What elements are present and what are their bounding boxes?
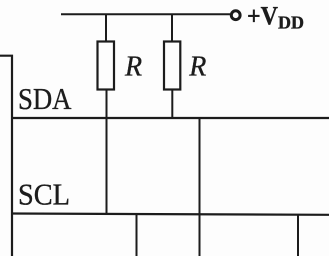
svg-text:R: R xyxy=(124,51,142,82)
wire: resistor R2 bottom to SDA xyxy=(171,90,173,119)
resistor R2 (pull-up to SDA) xyxy=(164,42,180,90)
svg-text:DD: DD xyxy=(278,13,304,33)
svg-text:SDA: SDA xyxy=(18,81,72,116)
wire: SDA bus line xyxy=(11,117,329,119)
wire: rail to resistor R2 top xyxy=(171,14,173,42)
svg-text:R: R xyxy=(188,51,206,82)
svg-text:SCL: SCL xyxy=(18,177,70,212)
label: +VDD xyxy=(247,2,304,33)
wire: device connection from SCL down (right) xyxy=(297,215,299,256)
terminal: +VDD open-circle terminal xyxy=(231,11,240,20)
wire: resistor R1 bottom down across SDA to SCL xyxy=(106,90,108,215)
wire: SCL bus line xyxy=(11,214,329,215)
wire: device connection from SDA down (crosses SCL) xyxy=(199,118,201,256)
resistor R1 (pull-up to SCL) xyxy=(98,42,115,90)
wire: device connection from SCL down (left) xyxy=(136,214,138,256)
master device block edge (top-right corner of cut-off block) xyxy=(0,56,12,256)
wire: +VDD supply rail xyxy=(61,13,230,15)
svg-text:+V: +V xyxy=(247,2,278,31)
wire: rail to resistor R1 top xyxy=(105,14,107,42)
